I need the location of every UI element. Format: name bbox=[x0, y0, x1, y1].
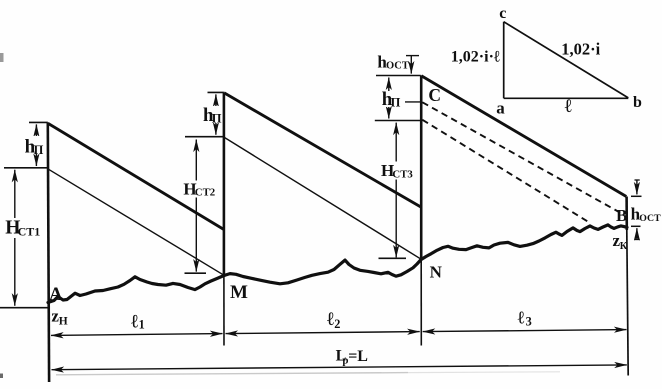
arrow HCT2 bbox=[195, 140, 197, 272]
svg-text:N: N bbox=[430, 263, 443, 282]
tick HCT3 bottom bbox=[379, 257, 407, 259]
svg-text:ℓ: ℓ bbox=[565, 96, 572, 117]
svg-text:1: 1 bbox=[139, 317, 145, 331]
arrow hOCT4 top bbox=[636, 180, 638, 194]
tick HCT2 bottom bbox=[185, 272, 207, 274]
svg-text:СТ2: СТ2 bbox=[195, 187, 215, 199]
triangle base bbox=[504, 97, 629, 99]
tick hOCT4 serif top bbox=[635, 179, 640, 181]
svg-text:К: К bbox=[620, 241, 628, 252]
dim l1 bbox=[51, 334, 223, 336]
wire thick diagonal 2 bbox=[224, 93, 421, 208]
svg-text:ℓ: ℓ bbox=[518, 307, 525, 327]
wire V1 vertical line left bbox=[48, 123, 49, 383]
tick HCT1 bottom bbox=[0, 307, 48, 309]
svg-text:3: 3 bbox=[526, 314, 532, 328]
svg-text:ℓ: ℓ bbox=[131, 311, 138, 332]
tick hP2 bottom bbox=[185, 136, 224, 138]
wire V3 extension bbox=[420, 260, 422, 346]
svg-text:1,02·i·ℓ: 1,02·i·ℓ bbox=[451, 48, 501, 65]
wire thick diagonal 1 bbox=[48, 123, 225, 230]
triangle hypotenuse bbox=[504, 22, 629, 98]
svg-text:ОСТ: ОСТ bbox=[639, 213, 661, 224]
svg-text:a: a bbox=[496, 98, 505, 117]
wire thin diagonal 1 bbox=[49, 169, 225, 275]
label hP2 bbox=[202, 106, 221, 123]
tick hOCT4 lower bbox=[631, 225, 641, 227]
tick top of hP2 bbox=[208, 91, 224, 93]
arrow HCT1 bbox=[14, 170, 16, 306]
scan artifact faint streak bottom bbox=[56, 373, 408, 375]
dashed line lower bbox=[422, 120, 591, 224]
arrow hOCT3 (down only) bbox=[410, 56, 412, 74]
wire thick diagonal 3 bbox=[421, 76, 626, 197]
arrow hP2 bbox=[215, 94, 217, 134]
dim l3 bbox=[423, 330, 627, 332]
wire V4 thick bbox=[625, 197, 628, 231]
wire V3 vertical line bbox=[420, 75, 423, 259]
arrow hP1 bbox=[35, 124, 37, 166]
triangle left side bbox=[503, 22, 505, 99]
svg-text:B: B bbox=[616, 206, 627, 225]
svg-text:b: b bbox=[633, 94, 642, 111]
label HCT3 bbox=[380, 162, 414, 180]
wire V2 extension bbox=[223, 277, 225, 346]
arrow hOCT4 bottom bbox=[636, 228, 638, 239]
svg-text:ℓ: ℓ bbox=[327, 309, 334, 330]
tick hOCT3 top small bbox=[406, 55, 419, 57]
wire V2 vertical line bbox=[223, 93, 226, 278]
svg-text:Н: Н bbox=[59, 315, 68, 327]
label hP3 bbox=[380, 91, 400, 107]
dim L row bbox=[52, 365, 627, 370]
svg-text:СТ3: СТ3 bbox=[392, 169, 413, 181]
svg-text:=L: =L bbox=[348, 348, 368, 365]
scan artifact left edge blob 2 bbox=[0, 374, 3, 379]
label HCT2 bbox=[182, 181, 216, 198]
wire thin diagonal 2 bbox=[225, 138, 422, 260]
tick HCT3 top bbox=[375, 120, 422, 122]
svg-text:C: C bbox=[428, 85, 441, 105]
tick tooth3 top bbox=[376, 75, 421, 77]
arrow HCT3 bbox=[395, 123, 397, 258]
scan artifact left edge blob 1 bbox=[0, 53, 4, 62]
svg-text:c: c bbox=[499, 5, 506, 22]
dim l2 bbox=[226, 332, 420, 334]
label hP1 bbox=[23, 136, 43, 154]
wire ground wavy line bbox=[48, 225, 627, 303]
tick hOCT4 upper bbox=[631, 195, 642, 197]
tick HCT1 top bbox=[4, 167, 48, 169]
svg-text:2: 2 bbox=[334, 317, 340, 331]
wire V4 extension bbox=[627, 230, 628, 376]
svg-text:1,02·i: 1,02·i bbox=[561, 39, 600, 58]
tick top of hP1 bbox=[29, 121, 48, 123]
arrow hP3 bbox=[388, 78, 390, 119]
svg-text:П: П bbox=[34, 143, 44, 157]
svg-text:П: П bbox=[391, 96, 401, 110]
svg-text:ОСТ: ОСТ bbox=[386, 60, 409, 71]
svg-text:СТ1: СТ1 bbox=[18, 225, 41, 239]
label HCT1 bbox=[4, 218, 38, 238]
tick hOCT4 serif bottom bbox=[635, 239, 640, 241]
tick C level bbox=[405, 101, 422, 103]
svg-text:П: П bbox=[212, 111, 222, 125]
svg-text:M: M bbox=[230, 282, 248, 303]
dashed line upper bbox=[422, 102, 623, 214]
